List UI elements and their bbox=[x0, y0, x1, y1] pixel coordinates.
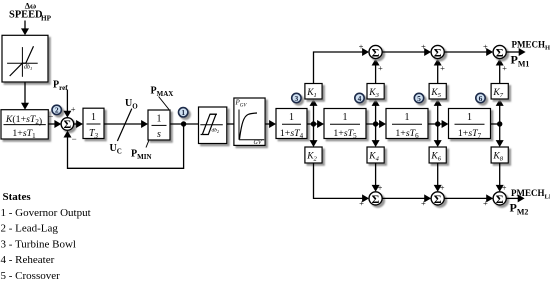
wire BS1 to BS2 bbox=[382, 194, 431, 202]
PGV y-axis bbox=[238, 110, 240, 140]
integrator fraction bar bbox=[152, 124, 167, 126]
plus sign K1 into TS1 bbox=[359, 41, 364, 51]
wire K8 to bottom summer bbox=[496, 163, 504, 192]
svg-text:1: 1 bbox=[289, 112, 294, 123]
output wire PMECH_LP bbox=[506, 194, 524, 202]
svg-text:5 - Crossover: 5 - Crossover bbox=[1, 270, 61, 282]
bottom summer BS1 bbox=[369, 192, 382, 206]
state circle 5 bbox=[414, 93, 423, 103]
gain block K3 bbox=[367, 84, 384, 100]
node Pref label bbox=[53, 80, 68, 93]
svg-text:1 - Governor Output: 1 - Governor Output bbox=[1, 207, 91, 219]
wire T6 output to T7 bbox=[428, 120, 449, 128]
state circle 3 bbox=[292, 93, 301, 103]
plus sign K2 into BS1 bbox=[359, 198, 364, 208]
block T5 numerator bbox=[343, 112, 348, 123]
block 1/T3 denominator bbox=[89, 128, 99, 140]
block T4 denominator bbox=[280, 128, 304, 140]
wire K5 to top summer bbox=[434, 59, 442, 84]
plus sign on Pref input bbox=[71, 104, 76, 114]
state circle 4 bbox=[355, 93, 364, 103]
top summer TS3 bbox=[493, 45, 506, 59]
deadband DB1 characteristic bbox=[10, 46, 34, 76]
wire db1 to lead-lag bbox=[21, 82, 29, 110]
wire TS2 to TS3 bbox=[444, 48, 493, 56]
PGV axis label GV bbox=[254, 140, 263, 146]
state circle 1 bbox=[179, 108, 188, 117]
deadband DB2 backlash symbol bbox=[201, 114, 217, 134]
bottom summer BS2 bbox=[431, 192, 444, 206]
gain block K8 bbox=[491, 147, 508, 163]
block T4 numerator bbox=[289, 112, 294, 123]
lead-lag denominator 1+sT1 bbox=[12, 128, 36, 140]
block T7 fraction bar bbox=[455, 123, 485, 125]
gain block K6 bbox=[429, 147, 446, 163]
minus sign on lead-lag input bbox=[48, 112, 53, 122]
svg-text:+: + bbox=[502, 63, 507, 73]
wire Pref to summer bbox=[63, 90, 71, 118]
svg-text:db2: db2 bbox=[212, 128, 220, 135]
limit PMAX pointer line bbox=[159, 97, 169, 110]
plus sign K8 input bbox=[502, 183, 507, 193]
plus sign TS2 left input bbox=[421, 41, 426, 51]
legend item 5 bbox=[1, 270, 61, 282]
top summer TS2 bbox=[431, 45, 444, 59]
legend item 2 bbox=[1, 223, 59, 235]
svg-text:2: 2 bbox=[55, 106, 59, 115]
integrator numerator bbox=[157, 114, 162, 125]
output label PMECH_HP bbox=[512, 39, 550, 51]
wire K7 to top summer bbox=[496, 59, 504, 84]
block T6 fraction bar bbox=[392, 123, 422, 125]
rate limit label UC bbox=[110, 143, 122, 156]
block T5 fraction bar bbox=[330, 123, 360, 125]
plus sign BS2 left input bbox=[421, 198, 426, 208]
wire node to K6 bbox=[434, 124, 442, 147]
deadband DB1 x-axis bbox=[7, 62, 38, 64]
svg-text:4: 4 bbox=[358, 94, 362, 103]
PGV label bbox=[235, 99, 248, 109]
wire node to K8 bbox=[496, 124, 504, 147]
gain block K1 bbox=[305, 84, 322, 100]
state circle 2 bbox=[52, 105, 61, 114]
output label PMECH_LP bbox=[511, 188, 550, 200]
wire integrator to db2 bbox=[170, 123, 199, 125]
wire BS2 to BS3 bbox=[444, 194, 493, 202]
block 1/(1+sT5) box bbox=[324, 109, 366, 139]
deadband DB2 value label db2 bbox=[212, 128, 220, 135]
gain block K7 bbox=[491, 84, 508, 100]
block T7 numerator bbox=[467, 112, 472, 123]
deadband DB1 y-axis bbox=[21, 47, 23, 77]
plus sign K7 input bbox=[502, 63, 507, 73]
output wire PMECH_HP bbox=[506, 48, 525, 56]
svg-text:1: 1 bbox=[467, 112, 472, 123]
svg-text:+: + bbox=[483, 41, 488, 51]
svg-text:1: 1 bbox=[157, 114, 162, 125]
integrator block 1/s box bbox=[148, 110, 170, 140]
svg-text:Σ: Σ bbox=[496, 192, 504, 206]
block 1/T3 fraction bar bbox=[87, 123, 101, 125]
legend item 3 bbox=[1, 238, 77, 250]
svg-text:Σ: Σ bbox=[496, 45, 504, 59]
output label PM2 bbox=[510, 201, 529, 217]
svg-text:+: + bbox=[440, 63, 445, 73]
limit label PMIN bbox=[131, 148, 152, 161]
svg-text:+: + bbox=[359, 41, 364, 51]
block T5 denominator bbox=[333, 128, 357, 140]
plus sign TS3 left input bbox=[483, 41, 488, 51]
deadband DB2 x-axis bbox=[200, 124, 223, 126]
deadband block DB1 box bbox=[2, 35, 48, 82]
block 1/T3 box bbox=[83, 108, 104, 138]
svg-text:1: 1 bbox=[181, 108, 185, 117]
svg-text:Σ: Σ bbox=[434, 45, 442, 59]
wire T5 output to T6 bbox=[366, 120, 386, 128]
svg-text:+: + bbox=[421, 41, 426, 51]
svg-text:Σ: Σ bbox=[64, 119, 72, 131]
block 1/T3 numerator bbox=[91, 112, 96, 123]
svg-text:1: 1 bbox=[91, 112, 96, 123]
output label PM1 bbox=[511, 53, 530, 69]
svg-text:Σ: Σ bbox=[372, 192, 380, 206]
wire K6 to bottom summer bbox=[434, 163, 442, 192]
lead-lag fraction bar bbox=[4, 124, 46, 126]
wire node to K1 bbox=[310, 99, 318, 124]
bottom summer BS3 bbox=[493, 192, 506, 206]
block T6 denominator bbox=[395, 128, 419, 140]
svg-text:6: 6 bbox=[479, 94, 483, 103]
svg-text:SPEED: SPEED bbox=[9, 9, 43, 20]
svg-text:Σ: Σ bbox=[434, 192, 442, 206]
plus sign K5 input bbox=[440, 63, 445, 73]
gain block K4 bbox=[367, 147, 384, 163]
wire K2 to bottom summer BS1 bbox=[314, 163, 370, 202]
svg-text:−: − bbox=[72, 134, 77, 144]
svg-text:+: + bbox=[378, 63, 383, 73]
legend item 4 bbox=[1, 254, 55, 266]
wire node to K2 bbox=[310, 124, 318, 147]
limit label PMAX bbox=[151, 86, 174, 99]
block T7 denominator bbox=[458, 128, 482, 140]
block 1/(1+sT4) box bbox=[276, 109, 307, 139]
block T6 numerator bbox=[405, 112, 410, 123]
wire db2 to PGV block bbox=[227, 123, 234, 125]
input label SPEED_HP bbox=[9, 1, 52, 23]
svg-text:−: − bbox=[48, 112, 53, 122]
svg-text:+: + bbox=[71, 104, 76, 114]
plus sign BS3 left input bbox=[483, 198, 488, 208]
plus sign K4 input bbox=[378, 183, 383, 193]
svg-text:HP: HP bbox=[41, 14, 52, 22]
gain block K2 bbox=[305, 147, 322, 163]
integrator denominator bbox=[157, 129, 161, 140]
wire input to db1 bbox=[21, 21, 29, 36]
block 1/(1+sT7) box bbox=[449, 109, 491, 139]
wire PGV to T4 block bbox=[265, 120, 276, 128]
feedback wire to summer bbox=[64, 124, 184, 168]
wire node to K7 bbox=[496, 99, 504, 124]
block T4 fraction bar bbox=[282, 123, 301, 125]
svg-text:s: s bbox=[157, 129, 161, 140]
summer S1 bbox=[61, 118, 74, 132]
wire T3 to integrator bbox=[104, 120, 148, 128]
legend item 1 bbox=[1, 207, 91, 219]
junction node 3 bbox=[435, 121, 440, 126]
plus sign K6 input bbox=[440, 183, 445, 193]
rate limiter slash bbox=[117, 109, 131, 141]
svg-text:3 - Turbine Bowl: 3 - Turbine Bowl bbox=[1, 238, 77, 250]
plus sign K3 input bbox=[378, 63, 383, 73]
wire TS1 to TS2 bbox=[382, 48, 431, 56]
wire T7 output to node bbox=[491, 123, 500, 125]
wire summer to T3 block bbox=[74, 120, 83, 128]
junction node 2 bbox=[373, 121, 378, 126]
svg-text:+: + bbox=[421, 198, 426, 208]
junction node 1 bbox=[311, 121, 316, 126]
block 1/(1+sT6) box bbox=[386, 109, 428, 139]
wire node to K3 bbox=[372, 99, 380, 124]
svg-text:1: 1 bbox=[343, 112, 348, 123]
svg-text:2 - Lead-Lag: 2 - Lead-Lag bbox=[1, 223, 59, 235]
PGV curve bbox=[240, 113, 258, 139]
lead-lag numerator K(1+sT2) bbox=[5, 114, 42, 127]
junction node 4 bbox=[497, 121, 502, 126]
wire node to K5 bbox=[434, 99, 442, 124]
gain block K5 bbox=[429, 84, 446, 100]
wire node to K4 bbox=[372, 124, 380, 147]
svg-text:+: + bbox=[359, 198, 364, 208]
deadband block DB2 box bbox=[199, 107, 227, 144]
svg-text:5: 5 bbox=[417, 94, 421, 103]
svg-text:4 - Reheater: 4 - Reheater bbox=[1, 254, 55, 266]
state circle 6 bbox=[476, 93, 485, 103]
wire K4 to bottom summer bbox=[372, 163, 380, 192]
junction node after integrator bbox=[181, 121, 186, 126]
svg-text:+: + bbox=[483, 198, 488, 208]
lead-lag block box bbox=[1, 110, 48, 139]
svg-text:db1: db1 bbox=[24, 65, 32, 72]
svg-text:3: 3 bbox=[295, 94, 299, 103]
wire K1 to top summer TS1 bbox=[314, 48, 370, 84]
limit PMIN pointer line bbox=[146, 141, 149, 148]
wire lead-lag to summer bbox=[48, 120, 61, 128]
svg-text:1: 1 bbox=[405, 112, 410, 123]
nonlinear block PGV box bbox=[234, 98, 265, 145]
PGV x-axis bbox=[239, 139, 264, 141]
deadband DB1 value label db1 bbox=[24, 65, 32, 72]
top summer TS1 bbox=[369, 45, 382, 59]
minus sign on feedback input bbox=[72, 134, 77, 144]
svg-text:States: States bbox=[3, 191, 32, 203]
rate limit label UO bbox=[125, 98, 138, 111]
svg-text:GV: GV bbox=[254, 140, 263, 146]
legend title States bbox=[3, 191, 32, 203]
wire K3 to top summer bbox=[372, 59, 380, 84]
svg-text:Σ: Σ bbox=[372, 45, 380, 59]
wire T4 output to T5 bbox=[307, 120, 324, 128]
